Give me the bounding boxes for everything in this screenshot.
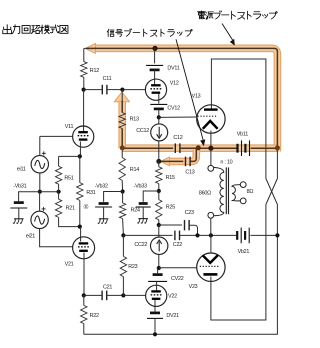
svg-text:V23: V23: [189, 284, 198, 290]
wire: lower bootstrap branch with C13: [159, 160, 184, 162]
wire: to transformer primary top: [210, 148, 212, 165]
resistor R13 (inside orange band): [119, 113, 125, 129]
current source CC22 (arrow up): [151, 237, 168, 254]
output transformer primary terminals: [208, 165, 214, 171]
capacitor C21: [101, 291, 103, 301]
svg-text:ei21: ei21: [26, 233, 35, 239]
svg-text:C23: C23: [185, 210, 194, 216]
wire: top supply rail under orange: [84, 47, 87, 49]
node: R12/C11/V11-plate junction: [82, 88, 86, 92]
tube V21: [73, 237, 95, 259]
node: R31/R21/V21-plate junction: [78, 225, 82, 229]
label: 電源ブートストラップ: [198, 11, 206, 19]
svg-text:n : 10: n : 10: [220, 160, 232, 166]
svg-text:R25: R25: [166, 205, 175, 211]
wire: B+ crossover upper-right to lower-left: [266, 179, 278, 205]
resistor R24: [122, 192, 124, 204]
svg-text:V12: V12: [170, 81, 179, 87]
wire: CC12 down across orange rail: [158, 141, 160, 162]
wire: node to C11: [84, 89, 103, 91]
wire: inner loop lower segment to V23 plate: [211, 205, 266, 321]
node: bottom rail junction: [153, 332, 157, 336]
wire: C12 to V13 cathode node: [180, 147, 237, 149]
svg-text:DV11: DV11: [167, 65, 179, 71]
wire: transformer bottom to coupling rail: [210, 218, 212, 235]
wire + resistor R51: [58, 156, 60, 166]
capacitor C13: [185, 157, 187, 167]
battery Vb11: [236, 144, 238, 153]
title: 出力回路模式図: [3, 25, 12, 34]
svg-text:CC12: CC12: [136, 128, 149, 134]
wire: bias node to -Vb31: [19, 192, 40, 202]
svg-text:V13: V13: [192, 93, 201, 99]
battery -Vb33: [139, 202, 148, 205]
svg-text:C21: C21: [103, 284, 112, 290]
ground below -Vb33: [138, 218, 148, 220]
resistor R23: [122, 235, 124, 256]
svg-text:-Vb33: -Vb33: [134, 183, 147, 189]
transformer core: [225, 167, 227, 214]
resistor R15: [158, 161, 160, 166]
svg-text:Vb11: Vb11: [237, 132, 248, 138]
svg-text:R14: R14: [130, 167, 139, 173]
wire: inner plate loop (V13 plate - top - right side - crossover): [211, 59, 266, 179]
node: V11 cathode junction: [78, 154, 82, 158]
wire: V21 plate lead: [80, 227, 82, 242]
coupling rail y=235: [123, 234, 172, 236]
wire: V23 top lead: [210, 235, 212, 253]
node: C23 elbow junction: [195, 233, 199, 237]
wire: V23 grid feed: [159, 267, 197, 269]
battery CV12 (thin top): [150, 103, 167, 105]
battery -Vb32: [99, 202, 109, 205]
capacitor C12: [174, 143, 176, 153]
source ei11: [31, 156, 48, 173]
battery DV21 (thick top): [150, 312, 160, 315]
capacitor C23: [184, 220, 186, 230]
leader line + arrow: signal bootstrap: [176, 39, 203, 140]
wire: C21 to R23 node: [107, 294, 124, 296]
output transformer primary coil: [214, 167, 224, 215]
resistor R12: [81, 62, 87, 78]
wire: V11 plate lead: [83, 90, 85, 132]
battery Vb21: [236, 231, 238, 240]
svg-text:-Vb32: -Vb32: [95, 183, 108, 189]
wire: to C23: [159, 224, 182, 226]
svg-text:R23: R23: [128, 264, 137, 270]
orange bootstrap highlight: mid rail band: [122, 144, 277, 152]
node: R25/C23/CC22 junction: [157, 223, 161, 227]
node: CV12/CC12/V13-grid junction: [157, 115, 161, 119]
ground below -Vb32: [99, 218, 109, 220]
node: top rail / DV11 junction: [152, 46, 157, 51]
wire: V22 grid feed: [123, 294, 146, 296]
orange bootstrap highlight: C13 lower branch band: [168, 150, 197, 161]
dark junction dots on orange path: [120, 145, 125, 150]
svg-text:C12: C12: [173, 135, 182, 141]
svg-text:R12: R12: [90, 68, 99, 74]
orange arrowhead pointing up at R13 top (to V12 grid node): [114, 92, 129, 102]
svg-text:R31: R31: [86, 190, 95, 196]
wire: ei21 bottom to V21 grid: [40, 229, 73, 247]
resistor R22: [83, 295, 85, 305]
wire: V21 cathode lead: [83, 253, 85, 296]
wire: ei11 top: [39, 136, 41, 155]
wire: R22 to bottom rail: [83, 324, 85, 335]
leader line + arrow: power bootstrap: [222, 24, 233, 41]
wire: -Vb33 to ground: [142, 207, 144, 218]
wire: Vb11 to B+ riser: [251, 147, 278, 149]
capacitor C22: [174, 231, 176, 241]
wire: R51 to node: [58, 184, 60, 192]
tube V13 (output, directly heated): [197, 105, 225, 133]
wire: ei11 bottom to bias node: [39, 173, 41, 192]
wire: R13 to orange mid rail corner: [121, 129, 123, 149]
node: R51/R21 junction: [57, 190, 61, 194]
battery DV11 (thin top): [146, 64, 163, 66]
wire: DV21 to bottom rail: [154, 318, 156, 334]
resistor R21: [58, 192, 60, 200]
tube V23 (output, mirrored): [197, 253, 225, 281]
node: start of coupling rail: [121, 233, 125, 237]
battery CV22 (thick top): [157, 268, 159, 273]
wire: Vb21 to right column: [250, 234, 277, 236]
node: right column junction: [275, 233, 279, 237]
orange bootstrap highlight: R13 vertical band: [118, 101, 126, 149]
svg-text:V22: V22: [168, 294, 177, 300]
wire: cathode node to R51: [59, 155, 80, 157]
battery -Vb31: [14, 201, 24, 204]
svg-text:C13: C13: [185, 169, 194, 175]
node: R14/R24/-Vb32 junction: [121, 189, 125, 193]
node: transformer bottom / V23 top junction: [209, 233, 213, 237]
wire: V11 cathode lead: [79, 142, 81, 157]
wire: -Vb32 to ground: [103, 207, 105, 219]
wire: -Vb31 to ground: [18, 208, 20, 219]
wire: V22 cathode to DV21: [154, 300, 156, 312]
svg-text:R51: R51: [64, 176, 73, 182]
orange arrowhead pointing left at C13 branch (to CC12/R15 node): [161, 157, 170, 166]
svg-text:R22: R22: [90, 313, 99, 319]
wire: bias node to R51/R21 node: [40, 191, 59, 193]
node: CC12/R15/C13 junction: [156, 159, 161, 164]
wire: to -Vb33: [143, 191, 159, 202]
transformer secondary terminals: [240, 182, 246, 188]
svg-text:-Vb31: -Vb31: [13, 184, 26, 190]
wire: C23 elbow down to coupling rail: [189, 225, 197, 235]
node: R15/R25/-Vb33 junction: [157, 189, 161, 193]
orange bootstrap highlight: top supply band: [94, 48, 278, 151]
tube V11: [73, 126, 94, 147]
wire: V12 cathode to CV12: [158, 94, 160, 104]
svg-text:R15: R15: [166, 175, 175, 181]
node: ei11/ei21/-Vb31 junction: [38, 190, 42, 194]
wire: V11 grid from ei11: [40, 135, 73, 137]
svg-text:860Ω: 860Ω: [199, 190, 211, 196]
node: V13 cathode on bootstrap rail: [208, 146, 213, 151]
wire: to -Vb32: [104, 192, 123, 202]
svg-text:Vb21: Vb21: [238, 249, 250, 255]
svg-text:R24: R24: [131, 207, 140, 213]
node: V21 cathode/C21/R22 junction: [82, 293, 86, 297]
svg-text:CV12: CV12: [167, 106, 180, 112]
resistor R31: [79, 156, 81, 182]
label: 信号ブートストラップ: [107, 29, 114, 36]
wire: V13 grid feed: [159, 116, 198, 118]
wire: C11 to V12 grid node: [107, 89, 122, 91]
node: C21/R23/V22-grid junction: [121, 293, 125, 297]
orange arrowhead pointing left at top-left (to R12/V11 plate node): [85, 43, 95, 53]
resistor R14: [121, 148, 123, 157]
wire: left column x=83.8 top rail to R12: [83, 48, 85, 61]
wire: node down to R13: [121, 90, 123, 101]
svg-text:R13: R13: [130, 117, 139, 123]
capacitor C11: [101, 85, 103, 95]
wire: V13 cathode lead: [210, 131, 212, 149]
tube V12: [145, 79, 166, 100]
svg-text:V11: V11: [65, 124, 74, 130]
wire: mid bootstrap rail (under orange): [122, 147, 173, 149]
source ei21: [31, 211, 48, 228]
wire: CC22 column: [158, 225, 160, 237]
node: CC22/CV22/V23-grid junction: [157, 266, 161, 270]
svg-text:R21: R21: [66, 206, 75, 212]
wire: CC22 to V23-grid node: [158, 255, 160, 269]
wire to C21: [84, 294, 102, 296]
svg-text:CV22: CV22: [171, 276, 184, 282]
svg-text:V21: V21: [65, 261, 74, 267]
svg-text:CC22: CC22: [134, 242, 147, 248]
wire: CV22 to V22 plate: [156, 281, 158, 290]
resistor R25: [158, 191, 160, 200]
wire: R21 to V21 plate rail: [59, 217, 80, 226]
svg-text:DV21: DV21: [166, 313, 179, 319]
wire: ei21 top: [39, 192, 41, 212]
wire: R12 to C11 node: [83, 77, 85, 89]
node: C11/R13/V12-grid junction: [120, 88, 124, 92]
svg-text:®: ®: [84, 203, 89, 211]
current source CC12 (arrow down): [158, 117, 160, 124]
wire: crossover to outer right side down to bottom rail: [84, 179, 278, 335]
ground below -Vb31: [14, 218, 24, 220]
wire: V12 grid feed: [122, 89, 145, 91]
svg-text:C11: C11: [103, 76, 112, 82]
output transformer secondary coil: [232, 185, 240, 201]
svg-text:8Ω: 8Ω: [247, 189, 254, 195]
tube V22: [146, 285, 167, 306]
svg-text:ei11: ei11: [17, 166, 26, 172]
svg-text:C22: C22: [173, 242, 182, 248]
